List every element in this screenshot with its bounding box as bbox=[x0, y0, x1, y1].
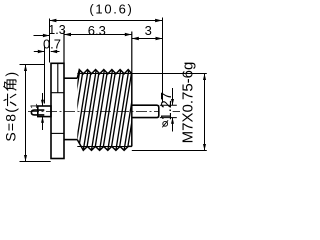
svg-text:6.3: 6.3 bbox=[88, 23, 106, 38]
svg-text:3: 3 bbox=[145, 23, 152, 38]
dimension 1 (tab) bbox=[41, 93, 44, 130]
dimension 0.7 bbox=[34, 50, 60, 53]
dimension (10.6) bbox=[49, 19, 162, 23]
dimension 6.3 bbox=[64, 33, 132, 36]
svg-text:M7X0.75-6g: M7X0.75-6g bbox=[180, 62, 197, 144]
svg-text:1.27: 1.27 bbox=[159, 92, 175, 120]
0.7 extension lines bbox=[44, 46, 46, 104]
dimension M7X0.75-6g bbox=[132, 74, 207, 151]
centerline bbox=[28, 111, 180, 113]
dimension 1.3 bbox=[34, 34, 50, 37]
left pin tip bbox=[31, 110, 44, 115]
hex body S=8 bbox=[51, 63, 64, 158]
thread root lines bbox=[77, 74, 132, 147]
extension line x=131.8 bbox=[131, 32, 133, 74]
right pin bbox=[132, 105, 159, 117]
neck bbox=[64, 78, 77, 139]
dimension S=8 bbox=[20, 65, 51, 162]
solder tab bbox=[38, 106, 51, 117]
svg-text:S=8(六角): S=8(六角) bbox=[3, 71, 19, 142]
svg-text:0.7: 0.7 bbox=[43, 36, 61, 51]
extension line x=64 bbox=[63, 31, 65, 63]
thread M7 outline bbox=[77, 70, 132, 151]
extension line left (x=50) bbox=[49, 19, 51, 63]
dimension 3 bbox=[132, 37, 163, 40]
svg-text:1: 1 bbox=[29, 103, 40, 108]
svg-text:(10.6): (10.6) bbox=[89, 1, 133, 16]
dimension phi 1.27 bbox=[160, 88, 177, 132]
svg-text:1.3: 1.3 bbox=[48, 23, 65, 37]
thread flank hatching bbox=[67, 68, 146, 152]
extension line x=162.3 bbox=[162, 18, 164, 103]
